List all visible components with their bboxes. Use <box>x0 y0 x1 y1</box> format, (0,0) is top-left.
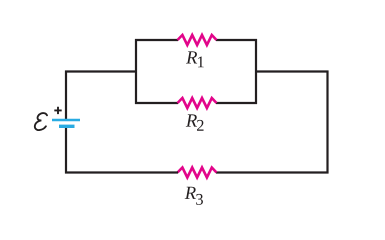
wire: right vertical rail <box>326 71 328 174</box>
label EMF script-E <box>35 113 47 130</box>
battery positive plate (long) <box>52 119 80 121</box>
battery plus sign <box>54 107 61 114</box>
wire: top-left horizontal from battery branch to parallel box <box>65 70 137 72</box>
label R3 <box>185 187 203 205</box>
wire: bottom rail right segment <box>216 171 329 173</box>
resistor R3 <box>178 168 217 178</box>
wire: R2 branch bottom side leads <box>135 102 257 104</box>
wire: R1 branch top side leads <box>135 39 257 41</box>
label R1 <box>186 51 204 67</box>
label R2 <box>186 114 204 130</box>
resistor R2 <box>178 98 217 108</box>
battery negative plate (short) <box>59 125 75 128</box>
wire: left vertical below battery <box>65 128 67 174</box>
wire: inner box left vertical (node a junction) <box>135 39 137 104</box>
wire: middle-right horizontal from parallel box to right rail <box>255 70 329 72</box>
wire: left vertical above battery <box>65 71 67 120</box>
wire: bottom rail left segment <box>65 171 178 173</box>
wire: inner box right vertical (node b junction) <box>255 39 257 104</box>
resistor R1 <box>178 35 217 45</box>
